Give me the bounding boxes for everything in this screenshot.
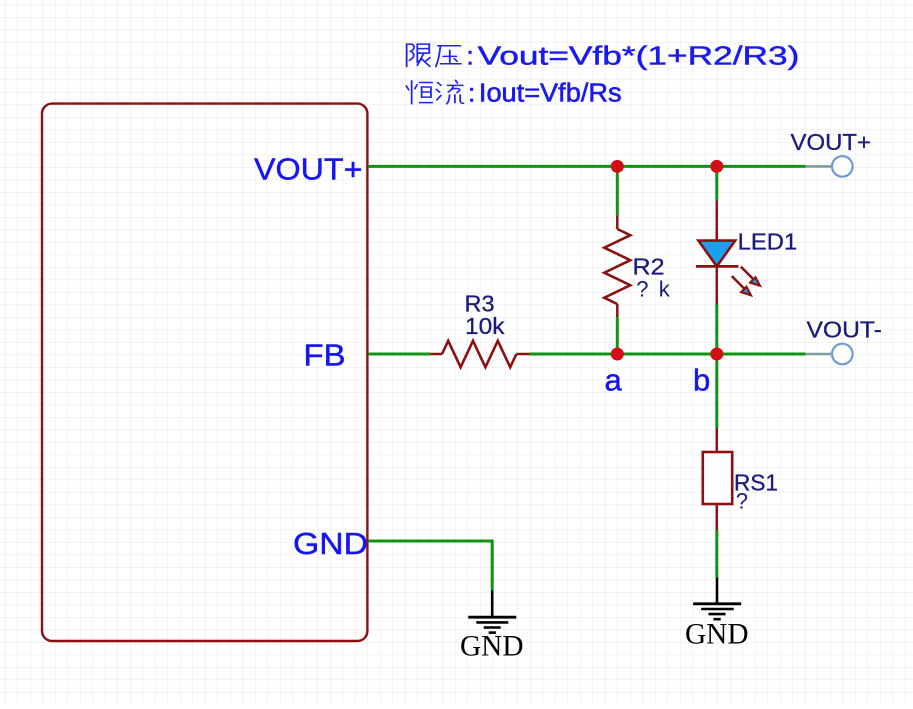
svg-text:VOUT+: VOUT+ (791, 129, 872, 155)
terminal VOUT+ (806, 156, 853, 177)
junction dot top-a (611, 160, 624, 173)
wire VOUT+ top horizontal (368, 165, 806, 168)
char 流 (436, 80, 463, 104)
junction dot top-b (710, 160, 723, 173)
annotation formula line 1: 限压:Vout=Vfb*(1+R2/R3) (407, 44, 461, 66)
wire FB to R3 (368, 353, 430, 356)
svg-text:GND: GND (460, 631, 524, 663)
emission arrow 1 (741, 267, 754, 280)
annotation formula line 2: 恒流:Iout=Vfb/Rs (406, 80, 463, 104)
junction dot node b (710, 348, 723, 361)
svg-text:10k: 10k (465, 313, 505, 339)
ground symbol left (468, 591, 516, 633)
wire LED bottom stub (715, 304, 718, 354)
char 恒 (406, 81, 432, 104)
wire R2 top stub (616, 166, 619, 215)
resistor RS1 (703, 428, 732, 530)
svg-text:?: ? (636, 276, 648, 301)
svg-text:GND: GND (685, 619, 749, 651)
svg-text:Vout=Vfb*(1+R2/R3): Vout=Vfb*(1+R2/R3) (478, 41, 800, 70)
wire node b to RS1 (715, 354, 718, 428)
svg-text::: : (467, 40, 474, 70)
svg-text:?: ? (736, 489, 748, 514)
wire R2 bottom stub (616, 317, 619, 354)
wire RS1 to GND (715, 530, 718, 578)
svg-text:VOUT-: VOUT- (807, 317, 882, 343)
svg-text:FB: FB (304, 337, 346, 372)
svg-text:b: b (693, 363, 710, 398)
svg-text:Iout=Vfb/Rs: Iout=Vfb/Rs (479, 78, 622, 107)
svg-text:VOUT+: VOUT+ (254, 151, 363, 186)
wire LED top stub (715, 166, 718, 200)
LED D1 (696, 201, 760, 305)
resistor R3 (430, 341, 529, 367)
wire R3 to VOUT- terminal (530, 353, 806, 356)
IC body (42, 104, 367, 641)
terminal VOUT- (806, 344, 853, 365)
char 压 (436, 46, 461, 67)
svg-text:LED1: LED1 (738, 229, 798, 255)
char 限 (407, 44, 430, 66)
resistor R2 (604, 216, 630, 318)
ground symbol right (693, 578, 741, 620)
svg-text:k: k (659, 276, 671, 301)
svg-text:a: a (605, 363, 623, 398)
emission arrow 2 (732, 276, 745, 289)
svg-text:GND: GND (293, 526, 368, 561)
junction dot node a (611, 348, 624, 361)
wire GND pin (368, 541, 492, 591)
svg-text::: : (468, 78, 475, 108)
